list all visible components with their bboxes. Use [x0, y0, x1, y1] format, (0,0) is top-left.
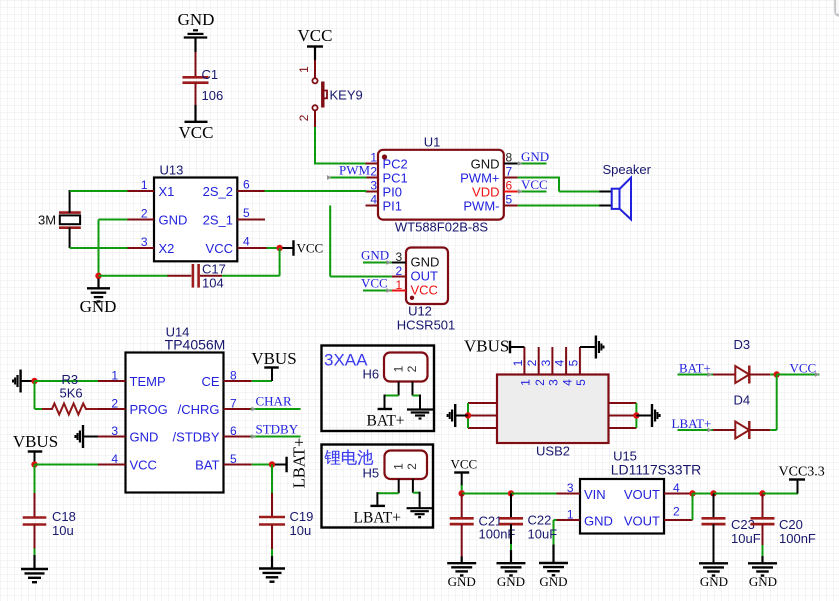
node C21 junction	[459, 490, 512, 496]
svg-text:/CHRG: /CHRG	[178, 402, 220, 417]
svg-text:4: 4	[560, 379, 574, 386]
U12 pin 1 VCC	[392, 278, 438, 297]
U1 pin 6 VDD	[472, 179, 518, 200]
svg-text:BAT+: BAT+	[679, 361, 711, 376]
svg-text:7: 7	[230, 397, 237, 411]
svg-text:TP4056M: TP4056M	[165, 337, 226, 353]
svg-text:CHAR: CHAR	[256, 394, 292, 409]
svg-text:STDBY: STDBY	[256, 422, 299, 437]
svg-text:GND: GND	[700, 574, 728, 589]
svg-text:Speaker: Speaker	[603, 162, 652, 177]
ground in H5	[407, 508, 433, 517]
svg-text:4: 4	[553, 359, 567, 366]
U1 pin 7 PWM+	[460, 165, 518, 186]
node VCC diode junction	[770, 361, 819, 378]
wire VCC node down to C17	[222, 248, 280, 276]
svg-text:3: 3	[370, 179, 377, 193]
USB2 right pins	[609, 403, 637, 428]
svg-text:PWM: PWM	[339, 163, 371, 178]
U14 pin 4 VCC	[98, 452, 157, 473]
svg-text:8: 8	[506, 151, 513, 165]
svg-text:TEMP: TEMP	[130, 374, 166, 389]
svg-text:VCC: VCC	[451, 457, 478, 472]
svg-text:1: 1	[111, 369, 118, 383]
U13 pin 3 X2	[127, 235, 175, 256]
ground USB2 right	[652, 404, 660, 427]
svg-text:2: 2	[525, 359, 539, 366]
power VCC below C1	[179, 105, 214, 142]
svg-text:3: 3	[567, 481, 574, 495]
power VBUS at USB2	[464, 337, 524, 356]
power GND top-left	[178, 10, 215, 52]
USB2 left pins	[468, 403, 497, 428]
U14 pin 3 GND	[98, 424, 158, 445]
U1 pin 5 PWM-	[463, 193, 517, 214]
diode D3	[713, 337, 770, 384]
svg-text:2: 2	[673, 505, 680, 519]
ground below C21	[447, 557, 476, 590]
svg-text:VCC: VCC	[130, 458, 157, 473]
power VCC above KEY9	[298, 26, 333, 60]
ground at U14 pin3	[75, 425, 98, 448]
svg-text:106: 106	[202, 88, 224, 103]
svg-text:2: 2	[370, 165, 377, 179]
svg-text:H5: H5	[363, 466, 380, 481]
USB2 pin 4 top	[553, 347, 575, 386]
U14 pin 8 CE	[201, 369, 251, 390]
wire H6 pin1 to BAT+	[385, 382, 399, 410]
svg-text:100nF: 100nF	[779, 531, 816, 546]
svg-text:C20: C20	[779, 517, 803, 532]
svg-text:2: 2	[396, 264, 403, 278]
chip U14 body	[126, 325, 226, 493]
U1 pin 3 PI0	[366, 179, 403, 200]
node GND junction	[95, 273, 168, 279]
power BAT+ bar	[367, 409, 405, 430]
U13 pin 2 GND	[127, 207, 188, 228]
svg-text:CE: CE	[201, 374, 219, 389]
svg-text:1: 1	[391, 463, 405, 470]
svg-text:PI1: PI1	[383, 199, 403, 214]
U1 pin 8 GND	[471, 151, 518, 172]
svg-text:C1: C1	[202, 67, 219, 82]
svg-text:BAT: BAT	[195, 458, 219, 473]
svg-text:X2: X2	[159, 241, 175, 256]
diode D4	[713, 393, 770, 440]
switch KEY9	[297, 60, 363, 128]
ground USB2 left	[448, 404, 456, 427]
svg-text:VOUT: VOUT	[624, 513, 660, 528]
svg-text:104: 104	[202, 276, 224, 291]
connector USB2 body	[497, 375, 609, 459]
svg-text:LBAT+: LBAT+	[672, 416, 712, 431]
svg-text:1: 1	[511, 359, 525, 366]
svg-text:VCC: VCC	[521, 177, 548, 192]
svg-text:PROG: PROG	[130, 402, 168, 417]
svg-text:10u: 10u	[52, 523, 74, 538]
connector H6	[363, 353, 428, 382]
svg-text:X1: X1	[159, 184, 175, 199]
U13 pin 4 VCC	[206, 235, 267, 257]
svg-text:/STDBY: /STDBY	[173, 430, 220, 445]
svg-text:100nF: 100nF	[479, 527, 516, 542]
svg-text:2: 2	[111, 397, 118, 411]
svg-text:PWM-: PWM-	[463, 199, 499, 214]
ground in H6	[407, 410, 433, 419]
svg-text:VCC: VCC	[298, 26, 333, 45]
ground at U14 pin1	[13, 370, 35, 393]
svg-text:6: 6	[506, 179, 513, 193]
svg-text:3: 3	[111, 424, 118, 438]
U14 pin 1 TEMP	[98, 369, 166, 390]
ground below C23	[699, 563, 728, 589]
node VOUT junction	[689, 490, 713, 520]
svg-text:GND: GND	[159, 213, 188, 228]
wire U13 pin6 to U1 pin3	[265, 190, 367, 192]
svg-text:4: 4	[673, 481, 680, 495]
svg-text:BAT+: BAT+	[367, 413, 405, 430]
svg-text:VCC: VCC	[361, 276, 388, 291]
svg-text:8: 8	[230, 369, 237, 383]
svg-text:LD1117S33TR: LD1117S33TR	[611, 462, 702, 478]
svg-text:VOUT: VOUT	[624, 487, 660, 502]
svg-text:VCC: VCC	[297, 241, 324, 256]
ground at U15 pin1	[539, 563, 568, 589]
svg-text:VIN: VIN	[584, 487, 606, 502]
IC U1 WT588F02B-8S body	[378, 135, 504, 235]
svg-text:VBUS: VBUS	[251, 349, 296, 368]
wire U15 GND to ground	[554, 520, 557, 563]
capacitor C19	[259, 465, 313, 551]
USB2 pin 1 top	[511, 347, 533, 386]
svg-text:10uF: 10uF	[731, 531, 761, 546]
svg-text:6: 6	[230, 424, 237, 438]
node USB2 left shield	[455, 412, 471, 418]
svg-text:C22: C22	[528, 513, 552, 528]
wire crystal top to X1	[69, 191, 128, 213]
svg-text:3M: 3M	[38, 213, 56, 228]
USB2 pin 3 top	[539, 347, 561, 386]
svg-text:7: 7	[506, 165, 513, 179]
svg-text:U12: U12	[408, 304, 432, 319]
wire crystal bottom to X2	[70, 228, 128, 249]
svg-text:5: 5	[574, 379, 588, 386]
svg-text:GND: GND	[361, 248, 389, 263]
svg-text:USB2: USB2	[536, 444, 570, 459]
svg-text:GND: GND	[130, 430, 159, 445]
regulator U15 body	[580, 449, 701, 534]
svg-text:4: 4	[111, 452, 118, 466]
svg-text:GND: GND	[749, 574, 777, 589]
net label PWM at U1 pin2	[327, 163, 371, 180]
svg-text:VCC: VCC	[179, 123, 214, 142]
svg-text:2: 2	[533, 379, 547, 386]
svg-text:PWM+: PWM+	[460, 171, 499, 186]
svg-text:VCC: VCC	[411, 282, 438, 297]
U15 pin 2 VOUT	[624, 505, 693, 529]
svg-text:WT588F02B-8S: WT588F02B-8S	[395, 220, 489, 235]
capacitor C1	[183, 52, 224, 105]
power VBUS at U14 pin8	[251, 349, 296, 381]
U14 pin 2 PROG	[98, 397, 168, 418]
svg-text:2S_2: 2S_2	[203, 184, 233, 199]
svg-text:PC1: PC1	[383, 171, 408, 186]
svg-text:3: 3	[141, 235, 148, 249]
U14 pin 7 /CHRG	[178, 397, 251, 418]
power VCC at C21	[451, 457, 478, 491]
svg-text:VCC: VCC	[790, 361, 817, 376]
svg-text:5: 5	[566, 359, 580, 366]
svg-text:2: 2	[405, 365, 419, 372]
svg-text:5: 5	[506, 193, 513, 207]
svg-text:VDD: VDD	[472, 185, 499, 200]
net label VCC at U12 pin1	[361, 276, 392, 293]
capacitor C17	[168, 262, 226, 291]
U1 pin 2 PC1	[366, 165, 408, 186]
node C22 junction	[508, 490, 557, 496]
svg-text:VBUS: VBUS	[464, 337, 509, 356]
net label BAT+ at D3	[678, 361, 714, 377]
U1 pin 4 PI1	[366, 193, 403, 214]
svg-text:LBAT+: LBAT+	[290, 438, 309, 489]
svg-text:GND: GND	[471, 157, 500, 172]
node USB2 right shield	[633, 412, 652, 418]
capacitor C18	[23, 465, 76, 550]
svg-text:PI0: PI0	[383, 185, 403, 200]
svg-text:GND: GND	[584, 513, 613, 528]
node BAT at U14 pin5	[252, 438, 309, 489]
svg-text:3: 3	[396, 250, 403, 264]
svg-text:U1: U1	[424, 135, 441, 150]
wire H6 pin2 to ground	[413, 382, 421, 410]
ground below C20	[748, 545, 777, 589]
svg-text:GND: GND	[411, 254, 440, 269]
svg-text:GND: GND	[80, 297, 117, 316]
ground below C22	[497, 544, 526, 589]
svg-text:C19: C19	[290, 509, 314, 524]
label lithium battery	[324, 450, 373, 465]
node VCC at U13 pin4	[267, 240, 324, 256]
wire U1 pin7 to speaker	[518, 177, 612, 192]
svg-text:GND: GND	[448, 574, 476, 589]
chip U13 body	[154, 163, 237, 262]
ground below C19	[259, 549, 285, 582]
wire D4 to VCC node	[770, 375, 777, 431]
power VCC3.3	[779, 465, 825, 494]
svg-text:10uF: 10uF	[528, 527, 558, 542]
capacitor C23	[702, 494, 761, 564]
resistor R3	[42, 372, 98, 415]
svg-text:3XAA: 3XAA	[324, 351, 368, 370]
capacitor C22	[499, 494, 557, 546]
box H5 frame	[322, 445, 434, 528]
U13 pin 1 X1	[127, 178, 175, 199]
svg-text:D3: D3	[734, 337, 751, 352]
svg-text:H6: H6	[363, 367, 380, 382]
svg-text:GND: GND	[497, 574, 525, 589]
net label LBAT+ at D4	[672, 416, 714, 432]
svg-text:1: 1	[567, 508, 574, 522]
svg-text:VCC3.3: VCC3.3	[779, 465, 825, 480]
svg-text:6: 6	[243, 178, 250, 192]
net label GND at U1 pin8	[518, 149, 549, 166]
svg-text:2S_1: 2S_1	[203, 213, 233, 228]
USB2 pin 2 top	[525, 347, 547, 386]
node C20 junction	[759, 490, 798, 496]
U15 pin 3 VIN	[556, 481, 606, 502]
U14 pin 6 /STDBY	[173, 424, 251, 445]
svg-text:C17: C17	[202, 262, 226, 277]
capacitor C20	[751, 494, 816, 547]
node TEMP junction	[31, 378, 98, 409]
svg-text:PC2: PC2	[383, 157, 408, 172]
svg-text:4: 4	[243, 235, 250, 249]
net label STDBY	[251, 422, 301, 439]
wire U1 pin4 to U12 pin2	[330, 206, 392, 277]
svg-text:5K6: 5K6	[60, 386, 83, 401]
wire KEY9 to U1 pin1	[314, 127, 367, 164]
box H6 3XAA frame	[322, 346, 435, 432]
panel corner top-right	[836, 0, 839, 16]
ground below crystal	[80, 279, 117, 317]
wire H5 pin2 to ground	[413, 479, 420, 508]
svg-text:2: 2	[297, 114, 311, 121]
label 3XAA	[324, 351, 368, 370]
svg-text:10u: 10u	[290, 523, 312, 538]
U14 pin 5 BAT	[195, 452, 252, 473]
ground right of VBUS	[596, 336, 604, 359]
svg-text:GND: GND	[178, 10, 215, 29]
svg-text:VCC: VCC	[206, 241, 233, 256]
svg-text:GND: GND	[539, 574, 567, 589]
node C23 junction	[710, 490, 762, 496]
U1 pin 1 PC2	[366, 151, 408, 172]
power VBUS left	[13, 432, 58, 462]
wire H5 pin1 to LBAT+	[377, 479, 398, 506]
ground below C18	[21, 549, 48, 583]
svg-text:D4: D4	[734, 393, 751, 408]
svg-text:1: 1	[519, 379, 533, 386]
svg-text:3: 3	[539, 359, 553, 366]
net label GND at U12 pin3	[361, 248, 392, 265]
svg-text:KEY9: KEY9	[330, 88, 363, 103]
svg-text:5: 5	[230, 452, 237, 466]
power LBAT+ bar	[354, 506, 402, 527]
svg-text:1: 1	[391, 365, 405, 372]
svg-text:VBUS: VBUS	[13, 432, 58, 451]
svg-text:4: 4	[370, 193, 377, 207]
svg-text:1: 1	[141, 178, 148, 192]
USB2 pin 5 top	[566, 347, 588, 386]
node VBUS junction	[31, 461, 98, 467]
svg-text:HCSR501: HCSR501	[397, 318, 456, 333]
svg-text:U13: U13	[160, 163, 184, 178]
U15 pin 4 VOUT	[624, 481, 693, 502]
svg-text:C18: C18	[52, 509, 76, 524]
speaker LS1	[603, 162, 652, 219]
U15 pin 1 GND	[556, 508, 613, 529]
connector H5	[363, 451, 428, 481]
svg-text:5: 5	[243, 206, 250, 220]
sensor U12 body	[397, 248, 456, 333]
crystal 3M	[38, 213, 81, 228]
svg-text:1: 1	[297, 66, 311, 73]
svg-text:GND: GND	[521, 149, 549, 164]
capacitor C21	[450, 494, 516, 558]
net label VCC at U1 pin6	[518, 177, 548, 194]
wire U1 pin5 to speaker	[518, 205, 612, 207]
wire GND vertical to U13 pin2	[99, 220, 128, 276]
U12 pin 3 GND	[392, 250, 440, 269]
U12 pin 2 OUT	[392, 264, 438, 283]
U13 pin 6 2S_2	[203, 178, 265, 200]
wire USB2 pin5 to ground	[580, 346, 596, 348]
U13 pin 5 2S_1	[203, 206, 265, 228]
svg-text:1: 1	[396, 278, 403, 292]
svg-text:2: 2	[141, 207, 148, 221]
svg-text:2: 2	[405, 463, 419, 470]
svg-text:OUT: OUT	[411, 268, 439, 283]
net label CHAR	[251, 394, 301, 412]
svg-text:1: 1	[370, 151, 377, 165]
svg-text:LBAT+: LBAT+	[354, 510, 402, 527]
svg-text:3: 3	[547, 379, 561, 386]
